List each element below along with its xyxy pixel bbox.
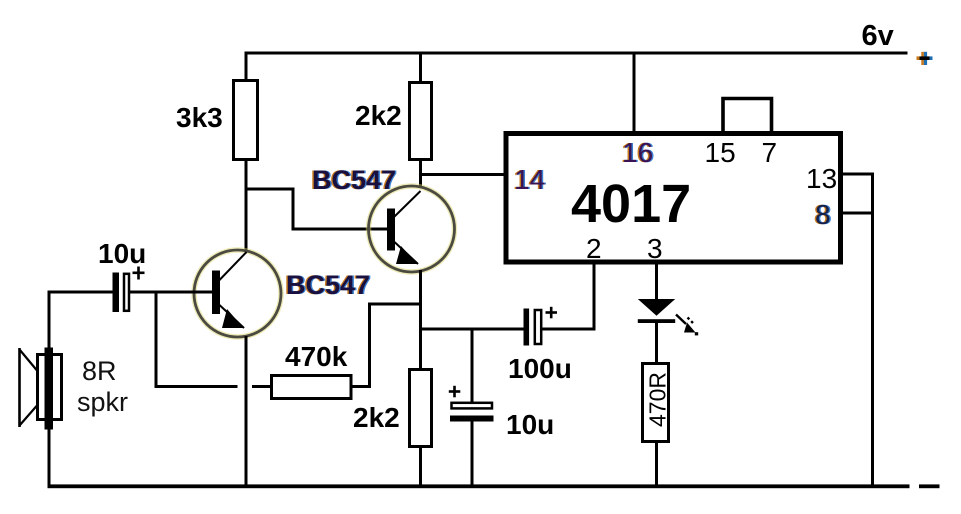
wire node B (junction R1/Q1 collector to Q2 base) [246,188,294,191]
wire U1 pin13 to right bus [842,173,873,176]
svg-text:8R: 8R [82,356,117,386]
wire R3 right lead up to Q2 emitter node [353,385,370,388]
svg-text:2k2: 2k2 [355,100,402,131]
wire speaker top to C1 [48,292,51,349]
svg-text:2: 2 [586,233,602,264]
svg-text:10u: 10u [506,409,554,440]
wire U1 pin3 to LED [655,263,658,300]
capacitor C3 10u [449,386,494,422]
wire speaker bottom to rail [48,428,51,486]
jumper pin15 to pin7 [723,99,772,132]
wire bottom ground rail [48,484,910,488]
svg-text:BC547: BC547 [312,165,396,195]
svg-text:470k: 470k [285,341,348,372]
svg-text:3: 3 [647,233,663,264]
wire rail to R1 top [245,52,248,81]
svg-text:4017: 4017 [571,174,691,234]
wire R2 bottom to Q2 collector [419,158,422,188]
wire R3 left lead (after crossover gap) [252,385,271,388]
svg-text:6v: 6v [862,20,894,52]
wire top supply rail 6v [245,52,908,55]
svg-text:7: 7 [762,137,778,168]
battery plus terminal [917,52,933,65]
wire rail to R2 top [419,52,422,83]
wire C2 right to U1 pin2 [542,328,596,331]
cursor arrow (blink indicator) [676,315,698,336]
svg-text:16: 16 [622,137,653,168]
wire junction down to R3 row [155,292,158,388]
svg-text:3k3: 3k3 [176,102,223,133]
svg-text:8: 8 [815,199,831,230]
wire C3 bottom to rail [471,422,474,487]
wire C1 to Q1 base [130,291,212,294]
resistor R1 3k3 [234,81,258,160]
svg-text:BC547: BC547 [286,270,370,300]
speaker SPK1 8R [18,348,61,430]
capacitor C1 10u input [113,267,145,313]
svg-text:10u: 10u [98,238,146,269]
resistor R4 2k2 [410,370,432,447]
svg-text:15: 15 [705,137,736,168]
wire Q2 emitter node to C2/C3 row [419,328,524,331]
wire U1 pin8 to right bus [842,212,873,215]
label BC547 (Q2) [311,165,398,195]
wire Q1 emitter down to bottom rail [245,336,248,486]
resistor R2 2k2 [410,83,432,160]
pin label 8 [814,199,833,230]
svg-text:13: 13 [806,163,837,194]
resistor R5 470R [643,364,669,442]
resistor R3 470k [272,376,352,399]
LED D1 [638,299,675,323]
svg-text:2k2: 2k2 [353,402,400,433]
capacitor C2 100u [524,307,558,346]
wire Q2 emitter down [419,270,422,369]
pin label 14 [513,164,547,195]
svg-text:100u: 100u [508,353,572,384]
svg-text:470R: 470R [645,372,671,427]
svg-text:spkr: spkr [77,387,128,417]
wire LED to R5 [655,323,658,363]
svg-text:14: 14 [514,164,545,195]
wire Q2 collector node to U1 pin14 [420,173,505,176]
transistor Q1 BC547 [194,250,281,337]
battery minus terminal [919,484,940,488]
wire R5 bottom to rail [655,441,658,486]
transistor Q2 BC547 [369,186,455,272]
wire R4 bottom to rail [419,446,422,486]
wire R1 bottom to Q1 collector [245,159,248,251]
label BC547 (Q1) [285,270,372,300]
IC U1 4017 [506,134,841,263]
wire right bus down to bottom rail [871,173,874,487]
wire junction down to C3 [471,328,474,403]
pin label 16 [621,137,655,168]
wire rail to U1 pin16 [633,52,636,133]
